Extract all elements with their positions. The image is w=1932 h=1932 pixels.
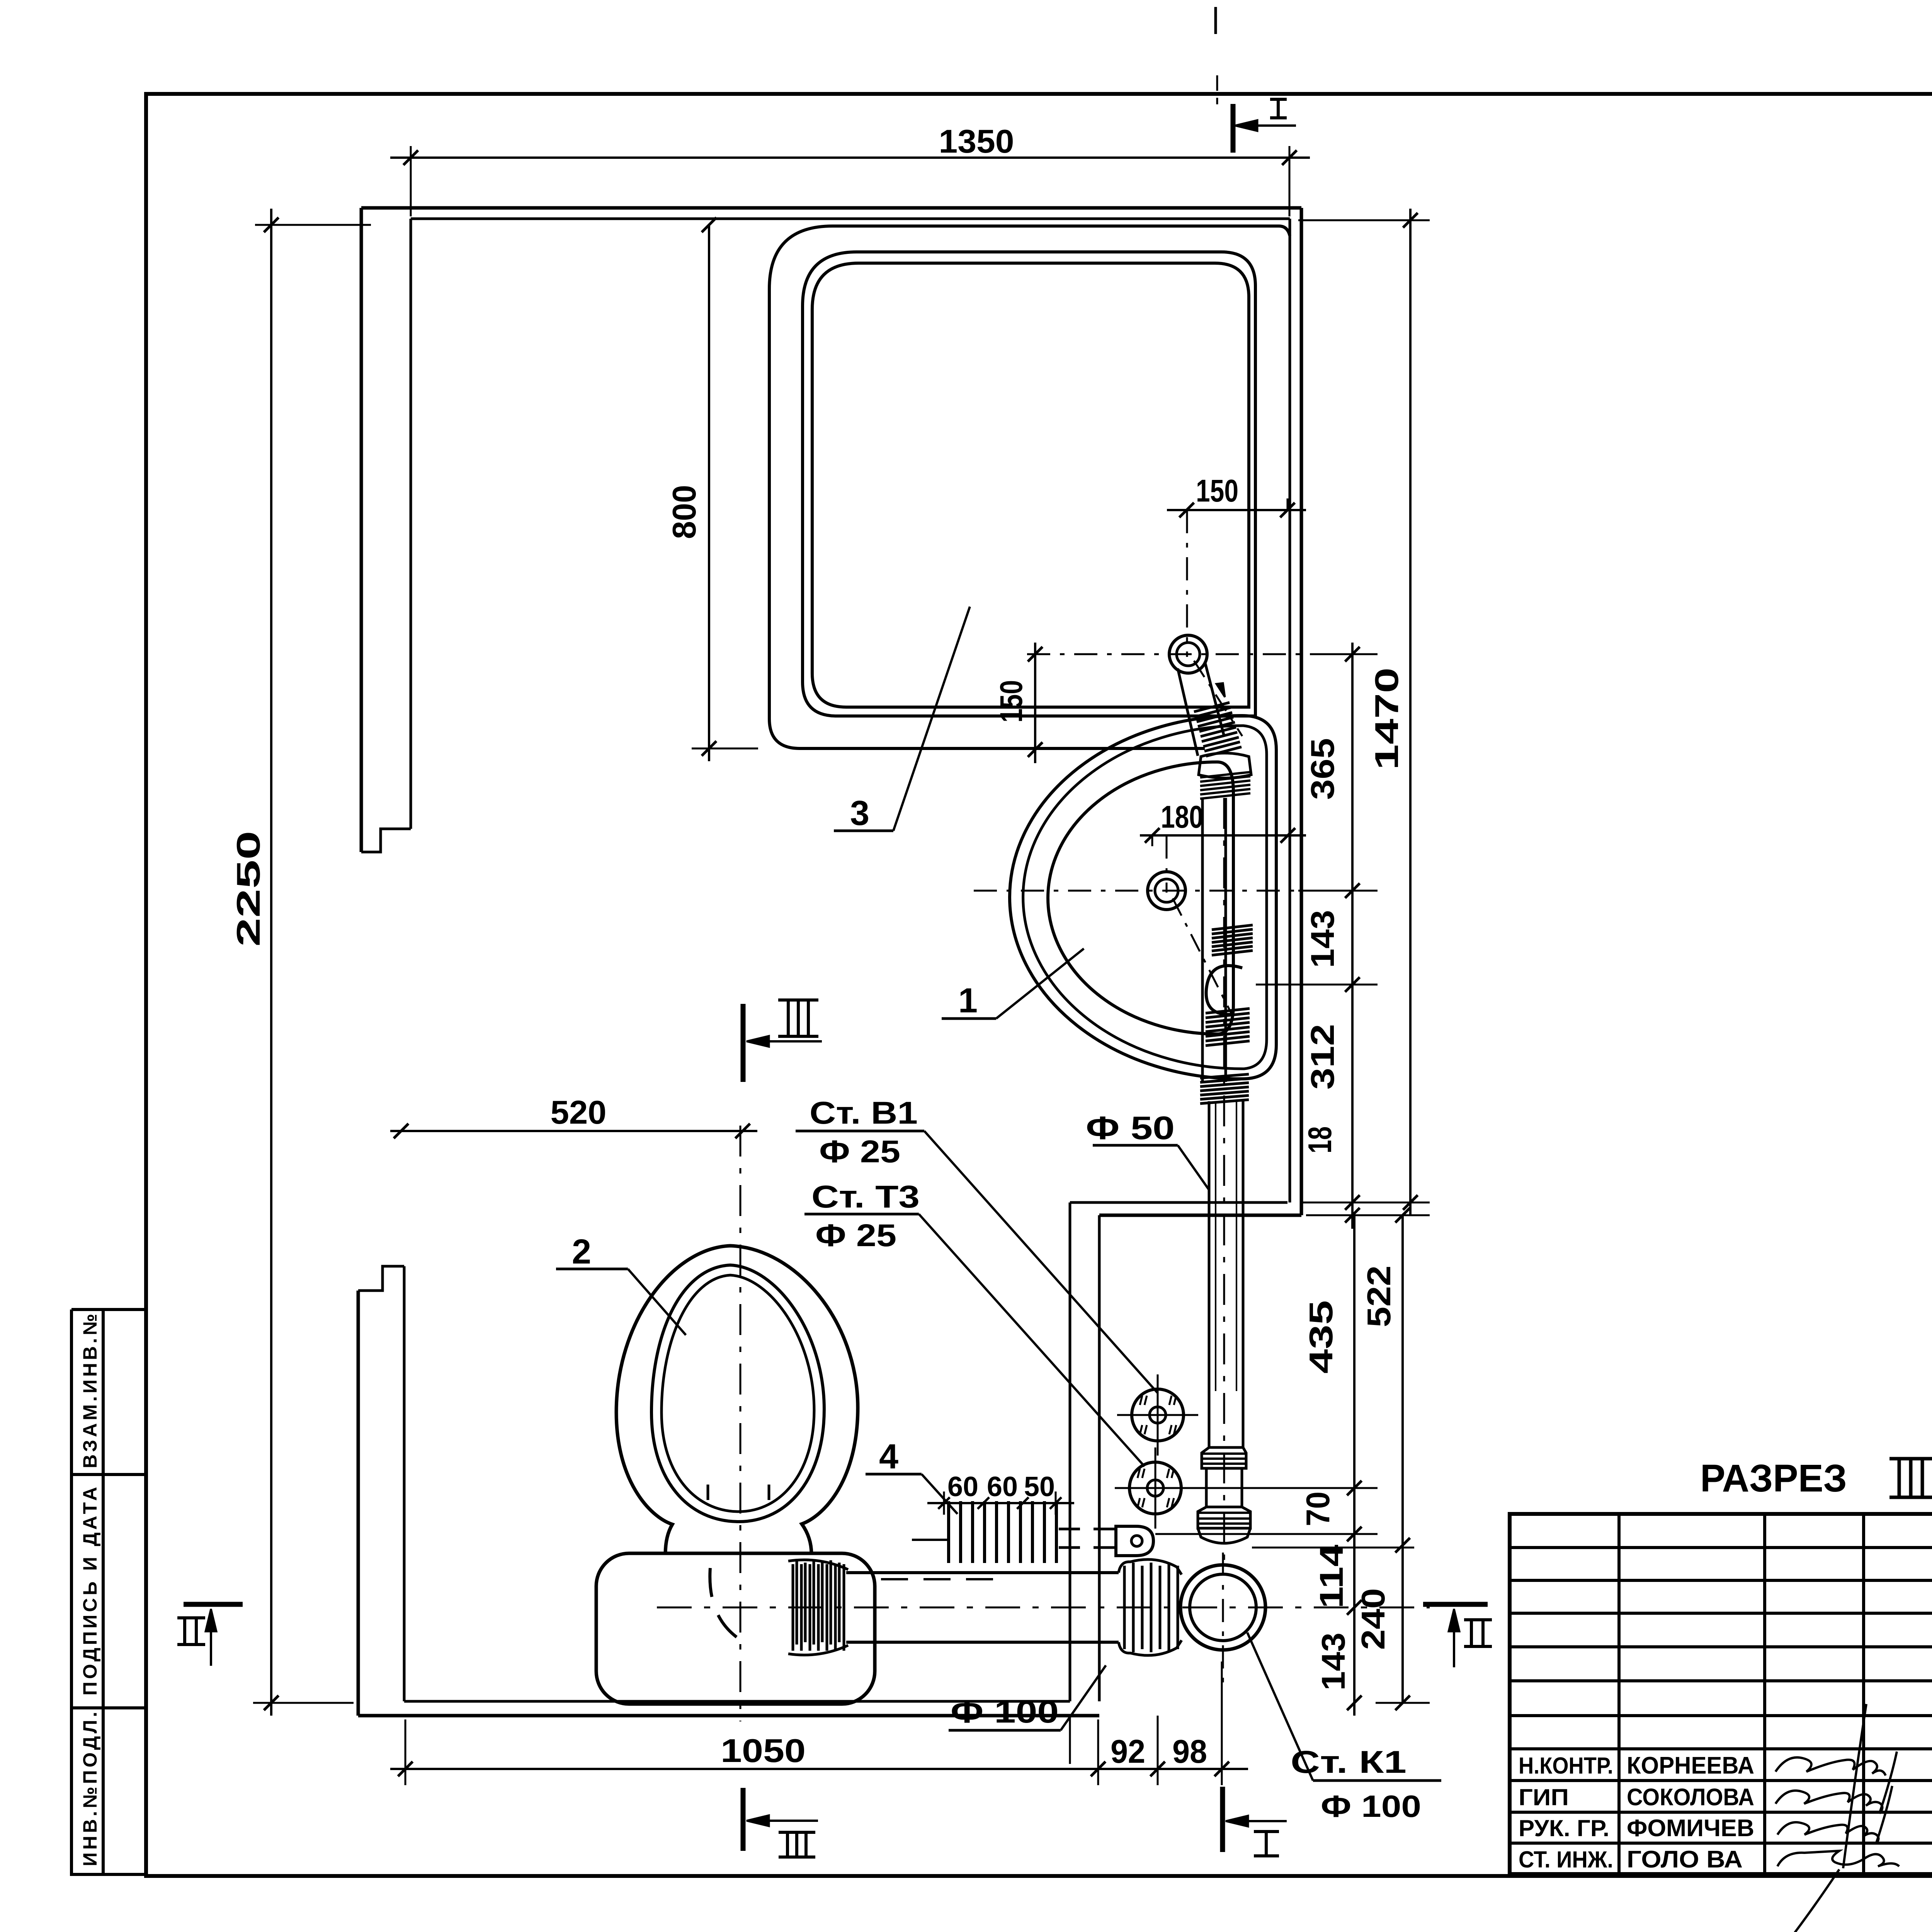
- ext tap1 to chain: [1318, 653, 1378, 655]
- wall step top: [1070, 1201, 1287, 1204]
- section II left: bar: [184, 1602, 243, 1607]
- wall left upper end notch: [361, 829, 411, 852]
- svg-text:РАЗРЕЗ: РАЗРЕЗ: [1700, 1457, 1847, 1500]
- pipe 100 top wall: [846, 1571, 1119, 1574]
- ext eyelet: [1155, 1533, 1378, 1535]
- section I top: arrow: [1235, 120, 1257, 131]
- wall bottom inner: [404, 1700, 1070, 1703]
- hose1 corrugation band A: [1194, 702, 1242, 756]
- dim 150 top line: [1167, 509, 1306, 511]
- hose1 arrow: [1216, 683, 1225, 697]
- bell neck: [1205, 1468, 1208, 1507]
- hose1 left edge: [1178, 668, 1198, 756]
- svg-text:Ф 50: Ф 50: [1086, 1110, 1175, 1146]
- dim 180 ticks: [1145, 828, 1160, 843]
- svg-text:60: 60: [987, 1471, 1018, 1502]
- washbasin rim outer: [1010, 716, 1276, 1079]
- bottom dim tick: [398, 1762, 413, 1776]
- svg-text:3: 3: [850, 794, 869, 833]
- ext tap2 to chain: [1298, 890, 1378, 892]
- dim 606050 tick: [1017, 1497, 1029, 1509]
- dim 150v line: [1034, 643, 1036, 763]
- stub St.V1 hatch marks: [1140, 1396, 1176, 1434]
- bell dome: [1198, 1528, 1250, 1543]
- dim 606050 tick: [978, 1497, 989, 1509]
- svg-text:Ф 25: Ф 25: [819, 1134, 900, 1169]
- section III lower: arrow: [747, 1815, 769, 1826]
- tap hole 2 outer: [1148, 872, 1185, 910]
- comb double dash to eyelet: [1059, 1528, 1121, 1531]
- chain B dim line: [1401, 1215, 1404, 1703]
- svg-text:800: 800: [666, 485, 703, 539]
- svg-text:18: 18: [1302, 1126, 1338, 1153]
- hose2 corrugation band B: [1206, 1009, 1250, 1046]
- hose2 siphon hook: [1206, 966, 1242, 1014]
- wall left upper inner: [410, 219, 412, 829]
- wall bottom outer: [358, 1714, 1099, 1718]
- svg-text:150: 150: [1196, 473, 1238, 509]
- eyelet hole: [1131, 1536, 1142, 1546]
- section II right: arrow: [1449, 1609, 1459, 1631]
- section III lower: label: [779, 1831, 815, 1834]
- bottom dim tick: [1150, 1762, 1165, 1776]
- dim 800 ext bottom: [692, 748, 758, 750]
- bell coupling upper ribs: [1202, 1447, 1246, 1468]
- svg-text:Ст. В1: Ст. В1: [810, 1095, 918, 1131]
- hose1 corrugation band B: [1200, 772, 1250, 799]
- ext 2842: [1097, 1719, 1099, 1785]
- washbasin bowl inner: [1048, 762, 1233, 1034]
- section I bottom: label: [1254, 1830, 1279, 1833]
- dim 180 ext left: [1151, 835, 1153, 846]
- chain A tick: [1347, 1696, 1362, 1710]
- svg-text:60: 60: [947, 1471, 978, 1502]
- hose1 centerline diagonal: [1194, 661, 1242, 736]
- centerline tap1 horizontal: [1027, 653, 1349, 655]
- drain crosshair vertical: [1222, 1553, 1224, 1687]
- pipe inner thin lines: [1215, 1101, 1216, 1391]
- dim 606050 tick: [1050, 1497, 1061, 1509]
- chain B tick: [1395, 1538, 1410, 1553]
- washbasin rim second line: [1023, 726, 1267, 1069]
- tap hole 1 inner: [1177, 643, 1200, 666]
- section I bottom: arrow: [1226, 1816, 1248, 1827]
- coupling below sink: [1200, 1074, 1249, 1104]
- section III upper: bar: [741, 1004, 746, 1082]
- svg-text:98: 98: [1172, 1733, 1207, 1770]
- section I top: label: [1270, 98, 1287, 101]
- right chain tick: [1345, 883, 1360, 898]
- dim 150 ticks: [1179, 503, 1194, 517]
- svg-text:СТ. ИНЖ.: СТ. ИНЖ.: [1519, 1847, 1613, 1872]
- svg-text:1470: 1470: [1369, 668, 1405, 770]
- svg-text:Н.КОНТР.: Н.КОНТР.: [1519, 1753, 1613, 1779]
- dim 520 line: [390, 1130, 757, 1132]
- tap hole 2 inner: [1155, 879, 1178, 902]
- dim 1350 ticks: [403, 150, 418, 165]
- ext 3162: [1221, 1662, 1223, 1785]
- right chain tick: [1345, 1195, 1360, 1210]
- dim 800 line: [708, 225, 710, 761]
- svg-text:Ст. Т3: Ст. Т3: [811, 1179, 920, 1214]
- svg-text:2: 2: [572, 1233, 591, 1271]
- hose1 collar: [1199, 753, 1251, 778]
- dim 1350 ext right: [1289, 146, 1291, 216]
- drain outer circle: [1180, 1565, 1265, 1650]
- wall left lower outer: [357, 1291, 360, 1716]
- ext teeth up: [943, 1492, 945, 1515]
- right chain tick: [1345, 647, 1360, 662]
- hose2 corrugation band A: [1212, 925, 1253, 955]
- svg-text:КОРНЕЕВА: КОРНЕЕВА: [1627, 1752, 1754, 1779]
- comb teeth item 4: [949, 1501, 1056, 1563]
- svg-text:Ф 100: Ф 100: [951, 1694, 1059, 1730]
- comb lead line left: [912, 1539, 947, 1541]
- centerline tap1 vertical: [1186, 510, 1188, 657]
- centerline tap2 horizontal: [974, 890, 1294, 892]
- signature squiggle 1: [1776, 1757, 1886, 1776]
- ext step to chain: [1301, 1202, 1430, 1204]
- eyelet lug: [1116, 1526, 1153, 1556]
- seat hinge dash left: [707, 1485, 709, 1507]
- svg-text:143: 143: [1315, 1633, 1352, 1690]
- signature squiggle 4 (and long stroke below): [1777, 1704, 1899, 1932]
- dim 150 ext wall: [1287, 498, 1289, 510]
- wall right inner: [1289, 219, 1291, 1202]
- svg-text:520: 520: [551, 1094, 607, 1131]
- wall lower-right outer: [1098, 1215, 1101, 1701]
- stub St.V1 inner: [1150, 1407, 1166, 1423]
- dim 1350 line: [390, 156, 1310, 159]
- signature squiggle 2: [1776, 1752, 1897, 1813]
- centerline tap2 vertical: [1166, 835, 1168, 893]
- coupling at cistern: [793, 1564, 844, 1651]
- hose1 right edge: [1205, 662, 1224, 736]
- ext eyelet2: [1252, 1547, 1414, 1549]
- top center trace dash: [1214, 7, 1217, 34]
- stub St.V1 outer: [1132, 1389, 1184, 1441]
- toilet bowl inner line2: [662, 1275, 814, 1512]
- svg-text:РУК. ГР.: РУК. ГР.: [1519, 1815, 1609, 1841]
- waste pipe mid (sink zone): [1201, 798, 1204, 1082]
- stub St.T3 crosshair: [1115, 1487, 1196, 1489]
- bottom dim line: [390, 1768, 1248, 1770]
- wall right outer: [1300, 208, 1303, 1215]
- svg-text:ГИП: ГИП: [1519, 1784, 1569, 1810]
- section II left: label: [177, 1616, 205, 1619]
- stub St.T3 inner: [1147, 1480, 1163, 1496]
- title block left sub-table columns: [1617, 1514, 1621, 1874]
- section II left: arrow: [206, 1609, 216, 1631]
- ext bottom 4407: [1376, 1702, 1430, 1704]
- pipe center dash-dot: [1223, 798, 1225, 1565]
- dim 520 ticks: [394, 1124, 408, 1138]
- svg-text:435: 435: [1303, 1300, 1340, 1374]
- dim 800 ticks: [702, 218, 716, 232]
- stub St.V1 crosshair: [1117, 1414, 1198, 1416]
- waste pipe lower run: [1208, 1101, 1211, 1447]
- wall lower-right inner: [1069, 1202, 1071, 1701]
- dim 2250 line: [270, 209, 272, 1716]
- svg-text:ПОДПИСЬ И ДАТА: ПОДПИСЬ И ДАТА: [79, 1487, 101, 1696]
- III-III roman: [1889, 1457, 1932, 1461]
- dim 180 line: [1140, 834, 1306, 837]
- section II right: label: [1464, 1618, 1492, 1621]
- shower tray outer: [769, 226, 1279, 748]
- svg-text:365: 365: [1304, 738, 1341, 800]
- wall left upper outer: [360, 208, 363, 852]
- stub St.T3 outer: [1129, 1462, 1181, 1514]
- svg-text:92: 92: [1111, 1733, 1145, 1770]
- dim 606050 line: [927, 1502, 1074, 1504]
- ext stub lower: [1186, 1487, 1378, 1489]
- section II right: bar: [1423, 1602, 1488, 1607]
- svg-text:143: 143: [1304, 910, 1341, 968]
- svg-text:312: 312: [1304, 1024, 1341, 1090]
- chain B tick: [1395, 1696, 1410, 1710]
- chain A tick: [1347, 1600, 1362, 1615]
- shower tray rim outer line: [803, 252, 1255, 716]
- ext wall inner down: [1069, 1716, 1071, 1764]
- ext 1049: [405, 1719, 406, 1785]
- pipe axis dash-dot: [657, 1607, 1430, 1609]
- dim 2250 ext bottom: [253, 1702, 354, 1704]
- wall left lower top notch: [358, 1266, 404, 1291]
- chain A tick: [1347, 1481, 1362, 1495]
- ext hose end to chain: [1256, 984, 1378, 986]
- dim 606050 tick: [938, 1497, 950, 1509]
- svg-text:Ф 100: Ф 100: [1321, 1789, 1421, 1823]
- svg-text:ФОМИЧЕВ: ФОМИЧЕВ: [1627, 1815, 1754, 1842]
- toilet bowl outer egg: [616, 1246, 858, 1554]
- wall top outer: [361, 206, 1301, 210]
- title block outline: [1510, 1514, 1932, 1874]
- coupling at drain: [1124, 1563, 1178, 1652]
- svg-text:240: 240: [1355, 1588, 1392, 1650]
- dim 2250 ticks: [264, 218, 279, 232]
- cistern rounded rect: [596, 1553, 875, 1704]
- dim 2250 ext top: [255, 224, 371, 226]
- chain A dim line: [1353, 1215, 1355, 1716]
- svg-text:50: 50: [1024, 1471, 1055, 1502]
- pipe 100 hidden dash: [881, 1578, 1009, 1580]
- dim 1470 ext top: [1298, 219, 1430, 221]
- svg-text:180: 180: [1161, 799, 1203, 835]
- hose2 centerline diagonal: [1173, 898, 1232, 1014]
- right chain tick: [1345, 1208, 1360, 1223]
- svg-text:Ф 25: Ф 25: [815, 1218, 896, 1253]
- wall top inner: [411, 218, 1290, 220]
- toilet bowl inner line1: [651, 1265, 824, 1522]
- right chain dim line: [1351, 643, 1354, 1229]
- svg-text:150: 150: [994, 680, 1029, 723]
- bell lower bulge ribs: [1198, 1507, 1250, 1528]
- chain A tick: [1347, 1527, 1362, 1541]
- svg-text:СОКОЛОВА: СОКОЛОВА: [1627, 1784, 1754, 1811]
- svg-text:ГОЛО ВА: ГОЛО ВА: [1627, 1846, 1743, 1873]
- right chain tick: [1345, 977, 1360, 992]
- bottom dim tick: [1091, 1762, 1105, 1776]
- title block rows: [1510, 1546, 1932, 1549]
- svg-text:1050: 1050: [721, 1733, 806, 1769]
- dim 150v ticks: [1028, 647, 1043, 662]
- svg-text:1350: 1350: [939, 123, 1014, 160]
- dim 1470 line: [1409, 209, 1412, 1215]
- left stamp table: [71, 1308, 146, 1311]
- section III upper: arrow: [747, 1036, 769, 1047]
- svg-text:4: 4: [879, 1437, 898, 1476]
- bottom dim tick: [1214, 1762, 1229, 1776]
- shower tray rim inner line: [812, 263, 1249, 707]
- section I bottom: bar: [1220, 1787, 1225, 1852]
- svg-text:1: 1: [958, 981, 978, 1020]
- signature squiggle 3: [1777, 1786, 1892, 1844]
- section III lower: bar: [741, 1788, 746, 1851]
- section I-I trace dash top: [1216, 75, 1218, 104]
- dim 1350 ext left: [410, 146, 412, 216]
- ext 2996: [1157, 1716, 1159, 1785]
- toilet centerline vertical: [740, 1126, 742, 1721]
- cistern elbow arc: [710, 1568, 737, 1638]
- stub St.T3 hatch marks: [1138, 1469, 1174, 1507]
- svg-text:70: 70: [1300, 1492, 1337, 1526]
- pipe 100 bottom wall: [846, 1641, 1119, 1644]
- ext step2 to chain: [1306, 1214, 1430, 1216]
- svg-text:114: 114: [1313, 1545, 1350, 1609]
- drain inner circle: [1190, 1574, 1256, 1641]
- chain B tick: [1395, 1208, 1410, 1223]
- svg-text:2250: 2250: [230, 831, 267, 947]
- wall left lower inner: [403, 1266, 406, 1701]
- svg-text:522: 522: [1361, 1265, 1398, 1327]
- dim 1470 ticks: [1403, 213, 1418, 228]
- cistern corrugated elbow ribs: [797, 1560, 839, 1645]
- svg-text:Ст. К1: Ст. К1: [1291, 1745, 1406, 1780]
- section I top: bar: [1231, 104, 1236, 153]
- wall step bottom: [1099, 1214, 1301, 1217]
- section III upper: label: [778, 998, 818, 1002]
- tap hole 1 outer: [1169, 635, 1207, 673]
- seat hinge dash right: [768, 1485, 770, 1507]
